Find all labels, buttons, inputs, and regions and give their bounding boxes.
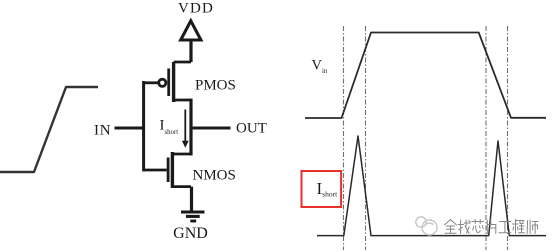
power symbol VDD arrow [181,21,201,40]
VDD label [178,1,214,17]
wire VDD stem [189,41,192,63]
svg-text:Ishort: Ishort [160,118,179,137]
watermark text [445,220,539,234]
dashed guide line 3 [485,26,487,250]
GND label [173,225,208,242]
svg-text:NMOS: NMOS [193,167,236,183]
svg-text:Vin: Vin [312,57,328,75]
transistor Q2 NMOS gate bar [167,158,170,183]
node OUT wire [190,127,231,130]
Ishort waveform trace [317,136,546,236]
Vin label [312,57,328,75]
PMOS label [195,78,236,94]
input ramp waveform [0,87,98,172]
Vin waveform trace [305,33,546,119]
svg-text:Ishort: Ishort [317,179,339,199]
wire NMOS gate [144,169,167,172]
dashed guide line 2 [365,26,367,250]
node IN wire [115,127,146,130]
wire GND stem [190,187,193,211]
transistor Q1 PMOS channel bar [172,62,175,102]
svg-text:GND: GND [173,225,208,242]
wire PMOS source [174,61,191,64]
svg-text:PMOS: PMOS [195,78,236,94]
wire gate vertical [142,81,145,171]
Ishort current arrow [182,110,189,148]
transistor Q1 PMOS gate bar [167,69,170,97]
wire output stem [189,99,192,156]
wire PMOS drain [174,99,191,102]
Ishort red box label [302,171,342,207]
IN label [94,122,111,138]
transistor Q2 NMOS channel bar [171,152,174,188]
svg-text:VDD: VDD [178,1,214,17]
NMOS label [193,167,236,183]
ground symbol [181,212,205,221]
svg-text:IN: IN [94,122,111,138]
wire PMOS gate [144,81,158,84]
Ishort current label [160,118,179,137]
transistor Q1 PMOS gate bubble [159,79,166,86]
svg-text:OUT: OUT [236,121,267,137]
wire NMOS source [172,185,191,188]
wire NMOS drain [172,153,191,156]
OUT label [236,121,267,137]
watermark logo [416,217,437,235]
dashed guide line 1 [343,26,345,250]
dashed guide line 4 [507,26,509,250]
